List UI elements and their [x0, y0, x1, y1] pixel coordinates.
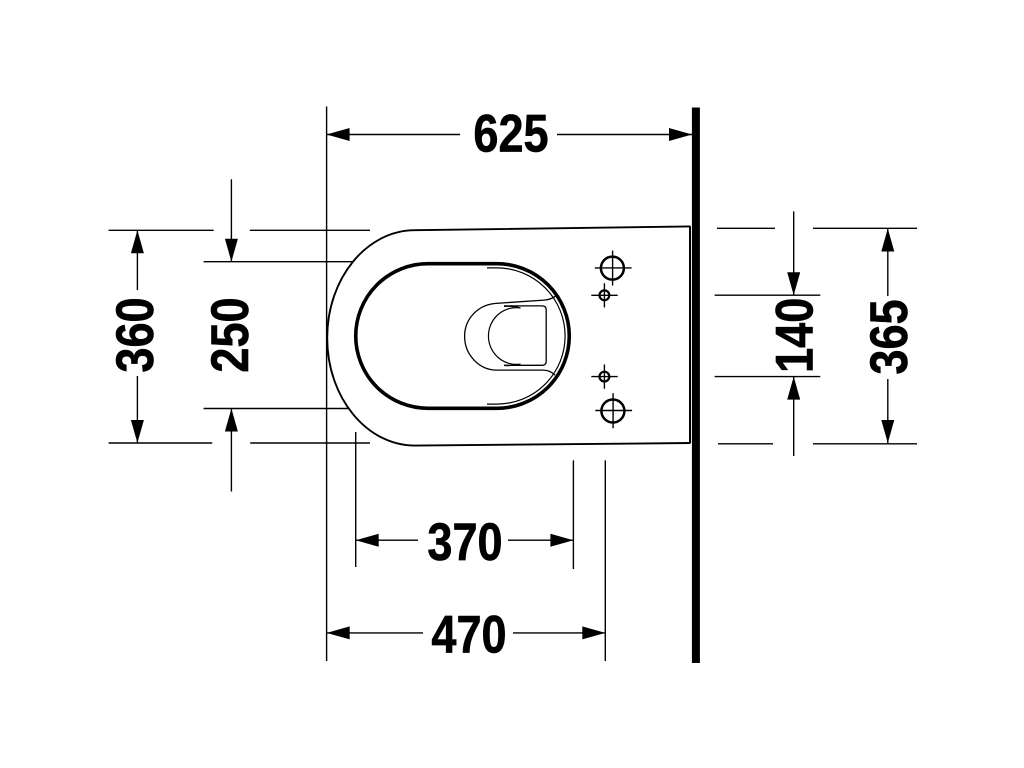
mounting hole large top — [601, 257, 624, 280]
toilet body outline — [327, 226, 690, 445]
ext line 470 right — [604, 460, 606, 661]
ext line 360 top — [109, 229, 214, 231]
ext line left vertical (625/470) — [326, 107, 328, 662]
arrow 365 down — [881, 420, 894, 443]
ext line 360 bottom — [109, 442, 213, 444]
arrow 360 up — [131, 230, 144, 253]
svg-text:140: 140 — [765, 298, 824, 373]
crosshair small top — [591, 294, 617, 296]
boundary 250 top — [204, 261, 352, 263]
seat inner thin line — [487, 268, 565, 404]
toilet right edge — [689, 226, 691, 443]
svg-text:470: 470 — [431, 605, 506, 664]
arrow 470 left — [327, 626, 350, 639]
dim 370 line — [356, 539, 418, 541]
crosshair small bottom — [591, 376, 617, 378]
dim 250 line bottom — [230, 409, 232, 492]
arrow 140 down (outside) — [787, 272, 800, 295]
mounting hole small bottom — [600, 372, 610, 382]
svg-text:250: 250 — [201, 297, 260, 372]
arrow 360 down — [131, 420, 144, 443]
arrow 625 left — [327, 128, 350, 141]
crosshair large top — [595, 267, 632, 269]
boundary 250 bottom — [204, 408, 348, 410]
dim 140 line bottom — [793, 377, 795, 456]
dim 470 line — [327, 632, 423, 634]
arrow 140 up (outside) — [787, 377, 800, 400]
dim 360 line — [136, 230, 138, 290]
arrow 250 up (outside) — [225, 409, 238, 432]
dim 625 line — [327, 134, 460, 136]
arrow 370 left — [356, 534, 379, 547]
crosshair large bottom — [595, 410, 632, 412]
ext line right top — [717, 227, 775, 229]
arrow 250 down (outside) — [225, 239, 238, 262]
mounting hole small top — [600, 290, 610, 300]
wall — [692, 108, 700, 664]
dim 250 line top — [230, 179, 232, 261]
drain outer trapway — [465, 296, 556, 375]
dim 365 line — [887, 229, 889, 297]
drain sump rect — [504, 306, 546, 365]
mounting hole large bottom — [601, 400, 624, 423]
arrow 625 right — [669, 128, 692, 141]
ext line right bottom — [718, 443, 773, 445]
ext line 370 left — [355, 432, 357, 567]
svg-text:365: 365 — [860, 299, 919, 374]
boundary 140 top — [715, 294, 821, 296]
boundary 140 bottom — [715, 376, 821, 378]
arrow 365 up — [881, 229, 894, 252]
svg-text:370: 370 — [427, 513, 502, 572]
svg-text:625: 625 — [473, 104, 548, 163]
arrow 370 right — [550, 534, 573, 547]
svg-text:360: 360 — [106, 297, 165, 372]
arrow 470 right — [582, 626, 605, 639]
seat ring — [356, 264, 570, 409]
drain sump arc — [488, 306, 520, 365]
ext line 370 right — [572, 460, 574, 569]
dim 140 line top — [793, 211, 795, 295]
